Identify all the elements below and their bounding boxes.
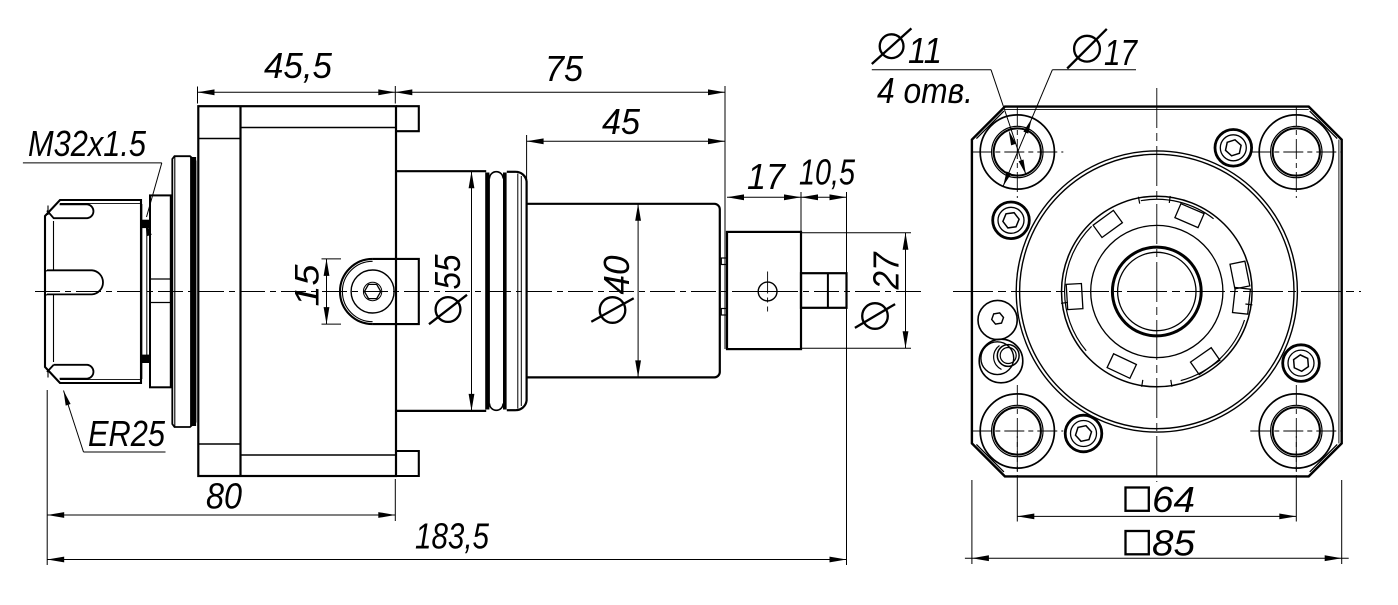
collet bore: [1112, 247, 1201, 336]
svg-text:M32x1.5: M32x1.5: [28, 123, 147, 164]
label ER25 leader: [64, 391, 166, 455]
spindle flange O55 with ring grooves: [396, 171, 527, 411]
dimension 17 and 10,5: [727, 152, 856, 566]
bearing boss circle O63: [1016, 151, 1297, 432]
housing mounting step bottom: [396, 451, 419, 476]
lock screw with hex: [978, 300, 1017, 339]
dimension square 64: [1017, 436, 1296, 522]
spindle body O40: [527, 204, 720, 378]
svg-text:45,5: 45,5: [264, 45, 333, 86]
svg-text:55: 55: [427, 254, 468, 290]
dimension 15: [289, 259, 342, 324]
svg-text:10,5: 10,5: [799, 152, 856, 193]
hex socket cap screw: [1215, 130, 1252, 167]
dimension 45: [527, 101, 725, 180]
hex socket cap screw: [1065, 415, 1102, 452]
mounting hole O11 cbore O17: [971, 106, 1063, 198]
clamp boss with hex set screw: [340, 259, 419, 324]
grease fitting detail: [979, 339, 1023, 383]
dimension square 85: [965, 480, 1349, 564]
svg-text:4 отв.: 4 отв.: [877, 70, 973, 111]
flange horizontal centerline: [953, 291, 1361, 293]
svg-text:45: 45: [602, 101, 641, 142]
hex socket cap screw: [993, 202, 1030, 239]
svg-text:40: 40: [596, 256, 637, 295]
svg-text:75: 75: [545, 48, 584, 89]
label M32x1.5 leader: [23, 123, 162, 236]
drive block 17: [721, 232, 801, 349]
thread M32x1.5 section: [142, 204, 150, 379]
svg-text:15: 15: [289, 264, 327, 306]
mounting hole O11 cbore O17: [971, 385, 1063, 477]
seal ring O63 with rubber band: [172, 156, 195, 427]
svg-text:17: 17: [747, 156, 787, 197]
svg-text:85: 85: [1152, 523, 1196, 564]
svg-text:64: 64: [1152, 479, 1195, 520]
label O17: [1003, 29, 1139, 186]
dimension O55: [427, 171, 475, 411]
cross pin hole: [750, 272, 786, 312]
drive tang 10.5: [801, 273, 847, 308]
mounting hole O11 cbore O17: [1250, 106, 1342, 198]
collet cap circle: [1091, 225, 1223, 357]
svg-text:27: 27: [865, 251, 906, 291]
mounting hole O11 cbore O17: [1250, 385, 1342, 477]
housing mounting step top: [396, 106, 419, 131]
dimension 183,5: [47, 516, 846, 563]
clamp ring O44: [150, 195, 171, 387]
flange vertical centerline: [1156, 88, 1158, 482]
ER25 collet nut: [45, 200, 141, 383]
dimension O40: [591, 204, 641, 378]
housing body: [198, 106, 396, 476]
dimension 75: [545, 48, 584, 89]
label O11 4 holes: [872, 28, 1026, 174]
dimension 80: [47, 390, 395, 565]
svg-text:80: 80: [206, 476, 242, 517]
castellated collet nut ring: [1061, 196, 1252, 387]
dimension O27: [802, 233, 911, 349]
flange plate 85x85 outline: [972, 107, 1342, 477]
dimension 45,5: [198, 45, 726, 349]
svg-text:183,5: 183,5: [415, 516, 490, 557]
svg-text:17: 17: [1104, 32, 1139, 73]
hex socket cap screw: [1283, 345, 1320, 382]
svg-text:ER25: ER25: [88, 413, 166, 454]
wire axis centerline of tool holder: [35, 291, 922, 293]
svg-text:11: 11: [908, 30, 942, 71]
